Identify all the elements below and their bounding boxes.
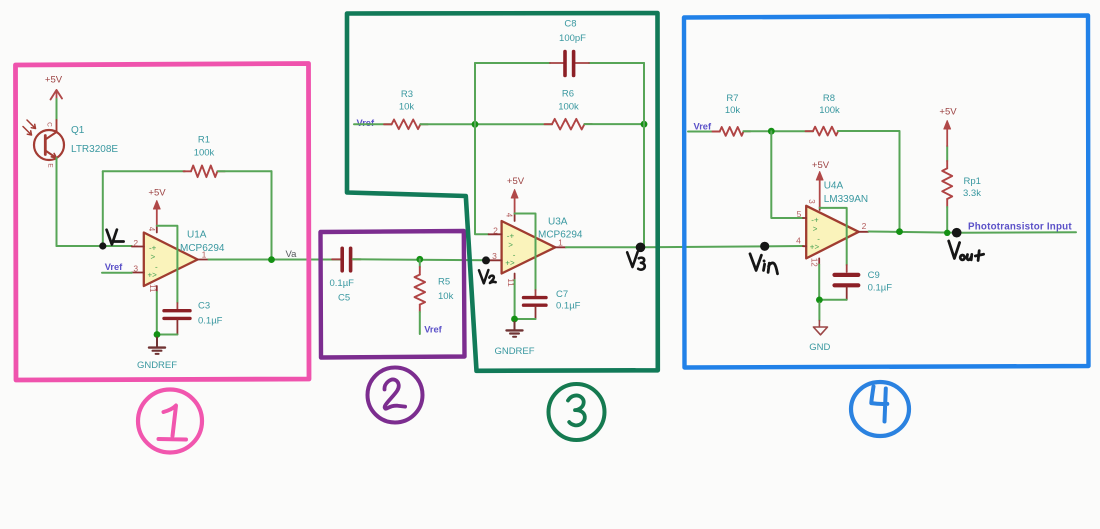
wire U4A output row xyxy=(869,232,1076,233)
svg-text:Vref: Vref xyxy=(105,262,123,272)
label Phototransistor Input xyxy=(968,222,1072,233)
capacitor C3 0.1uF xyxy=(164,301,223,335)
wire Q1 emitter down xyxy=(56,158,58,246)
svg-text:U1A: U1A xyxy=(187,230,207,241)
svg-text:2: 2 xyxy=(133,238,138,248)
node V2 dot xyxy=(482,256,490,264)
resistor R8 100k xyxy=(806,93,846,136)
svg-text:100k: 100k xyxy=(558,102,579,113)
resistor R1 100k xyxy=(184,135,226,178)
box 4 outline (blue) xyxy=(684,16,1089,368)
svg-text:Vref: Vref xyxy=(357,118,375,128)
wire U1A output row xyxy=(209,259,341,261)
svg-text:Vref: Vref xyxy=(694,122,712,132)
svg-text:10k: 10k xyxy=(438,291,454,302)
svg-text:Va: Va xyxy=(286,249,298,260)
wire C8 branch left vertical xyxy=(475,63,489,234)
svg-text:Phototransistor Input: Phototransistor Input xyxy=(968,222,1072,233)
svg-text:R6: R6 xyxy=(562,89,574,100)
phototransistor Q1 LTR3208E xyxy=(23,120,118,168)
resistor R7 10k xyxy=(713,93,751,136)
ground GNDREF (U3A) xyxy=(494,322,534,357)
capacitor C8 100pF xyxy=(550,19,589,76)
junction R7-R8 node xyxy=(768,128,775,135)
svg-text:Rp1: Rp1 xyxy=(964,176,981,187)
svg-text:C7: C7 xyxy=(556,289,568,300)
wire feedback top right xyxy=(218,170,272,172)
svg-text:0.1µF: 0.1µF xyxy=(198,316,223,327)
svg-text:MCP6294: MCP6294 xyxy=(180,243,225,254)
svg-text:4: 4 xyxy=(505,213,514,218)
svg-text:0.1µF: 0.1µF xyxy=(868,282,893,293)
svg-text:C9: C9 xyxy=(868,270,880,281)
wire right branch down to V3 row xyxy=(643,63,645,247)
wire U4A bypass tee xyxy=(820,208,847,265)
node Vout dot xyxy=(952,228,962,238)
svg-text:2: 2 xyxy=(493,226,498,236)
svg-text:3.3k: 3.3k xyxy=(963,188,981,199)
svg-text:0.1µF: 0.1µF xyxy=(330,278,355,289)
resistor R5 10k xyxy=(415,259,454,334)
svg-text:3: 3 xyxy=(492,251,497,261)
node V3 handwritten label xyxy=(627,252,645,270)
junction node Va xyxy=(268,256,275,263)
svg-text:GNDREF: GNDREF xyxy=(494,346,534,357)
wire R6 right xyxy=(585,123,645,125)
junction right C8 branch xyxy=(641,121,648,128)
ground GNDREF (U1A) xyxy=(137,338,177,372)
svg-text:-+: -+ xyxy=(507,231,515,240)
ground GND (U4A) xyxy=(809,303,830,354)
power +5V (U4A) xyxy=(812,160,830,207)
svg-text:Vref: Vref xyxy=(424,325,442,335)
node Vout handwritten label xyxy=(949,241,984,261)
circled number 2 xyxy=(368,368,423,423)
svg-text:LM339AN: LM339AN xyxy=(824,194,868,205)
capacitor C5 0.1uF xyxy=(330,248,362,303)
svg-text:5: 5 xyxy=(797,209,802,219)
op-amp U1A MCP6294 xyxy=(132,226,225,293)
svg-text:3: 3 xyxy=(133,264,138,274)
junction left C8 branch xyxy=(472,121,479,128)
svg-text:0.1µF: 0.1µF xyxy=(556,301,581,312)
svg-text:R1: R1 xyxy=(198,135,210,146)
resistor R6 100k xyxy=(545,89,593,130)
svg-text:+5V: +5V xyxy=(45,75,63,86)
node V2 handwritten label xyxy=(479,270,496,283)
capacitor C9 0.1uF xyxy=(835,270,893,300)
power +5V (U1A) xyxy=(148,188,166,226)
svg-text:+>: +> xyxy=(148,271,158,280)
box 1 outline (pink) xyxy=(16,64,310,381)
svg-text:100k: 100k xyxy=(194,148,215,159)
svg-text:R8: R8 xyxy=(823,93,835,104)
wire C8 row xyxy=(475,62,644,64)
svg-text:12: 12 xyxy=(809,258,818,267)
junction ground node U3A xyxy=(511,316,518,323)
wire U3A pin11 to ground junction xyxy=(515,280,536,319)
node Vin dot xyxy=(760,242,769,251)
wire feedback top left xyxy=(103,170,185,172)
label Vref (R7 left) xyxy=(688,122,720,132)
circled number 1 xyxy=(138,390,202,453)
wire Q1 collector to +5V xyxy=(56,99,58,120)
wire R8 to feedback vertical xyxy=(838,131,900,231)
svg-text:10k: 10k xyxy=(725,105,741,116)
label Vref (R5 bottom) xyxy=(424,325,442,335)
svg-text:U3A: U3A xyxy=(548,217,568,228)
svg-text:>: > xyxy=(508,240,513,249)
svg-text:>: > xyxy=(813,224,818,233)
svg-text:10k: 10k xyxy=(399,102,415,113)
junction Rp1 output node xyxy=(944,230,950,236)
svg-text:GND: GND xyxy=(809,342,830,353)
svg-text:2: 2 xyxy=(862,221,867,231)
svg-text:R5: R5 xyxy=(438,277,450,288)
circled number 3 xyxy=(549,384,605,440)
label Vref (U1A pin3) xyxy=(102,262,132,273)
svg-text:Q1: Q1 xyxy=(71,125,85,136)
junction R5 top xyxy=(416,256,423,263)
svg-text:C: C xyxy=(46,122,53,127)
svg-text:-+: -+ xyxy=(149,244,157,253)
node V3 dot xyxy=(636,243,646,253)
junction ground node U4A xyxy=(816,297,823,304)
svg-text:>: > xyxy=(151,253,156,262)
svg-text:LTR3208E: LTR3208E xyxy=(71,144,118,155)
wire U3A bypass tee xyxy=(515,214,536,291)
junction ground node U1A xyxy=(154,331,161,338)
svg-text:C5: C5 xyxy=(338,293,350,304)
op-amp U3A MCP6294 xyxy=(489,213,583,287)
svg-text:100pF: 100pF xyxy=(559,33,586,44)
svg-text:+>: +> xyxy=(505,258,515,267)
wire emitter row to U1A pin 2 xyxy=(57,245,132,247)
wire C5 to U3A pin3 xyxy=(353,259,489,260)
svg-text:R3: R3 xyxy=(401,89,413,100)
wire R7 to R8 xyxy=(744,130,814,132)
svg-text:-+: -+ xyxy=(811,215,819,224)
node V- dot xyxy=(99,242,106,249)
svg-text:100k: 100k xyxy=(819,105,840,116)
svg-text:+5V: +5V xyxy=(148,188,166,199)
svg-text:C3: C3 xyxy=(198,301,210,312)
svg-text:C8: C8 xyxy=(564,19,576,30)
capacitor C7 0.1uF xyxy=(524,289,581,319)
resistor R3 10k xyxy=(384,89,428,129)
svg-text:U4A: U4A xyxy=(824,181,844,192)
wire pin5 branch xyxy=(771,131,803,218)
box 3 outline (green) xyxy=(347,13,658,371)
svg-text:+5V: +5V xyxy=(939,107,957,118)
schematic layer placeholder xyxy=(23,19,1076,372)
wire U1A bypass tee xyxy=(157,226,178,303)
wire feedback right vertical xyxy=(271,171,273,259)
wire U4A pin12 to ground junction xyxy=(819,265,847,300)
power +5V (Q1 collector supply) xyxy=(45,75,63,100)
power +5V (Rp1) xyxy=(939,107,957,147)
junction feedback node xyxy=(896,228,903,235)
box 2 outline (purple) xyxy=(321,231,465,358)
wire U1A pin11 to ground junction xyxy=(157,292,178,335)
label Vref (R3 left) xyxy=(354,118,392,128)
wire feedback left vertical xyxy=(102,171,104,246)
svg-text:MCP6294: MCP6294 xyxy=(538,230,583,241)
svg-text:R7: R7 xyxy=(726,93,738,104)
resistor Rp1 3.3k pull-up xyxy=(942,146,981,233)
svg-text:+5V: +5V xyxy=(507,176,525,187)
svg-text:GNDREF: GNDREF xyxy=(137,360,177,371)
node Vin handwritten label xyxy=(750,254,777,274)
circled number 4 xyxy=(851,382,909,436)
svg-text:11: 11 xyxy=(148,284,157,293)
svg-text:+>: +> xyxy=(810,242,820,251)
wire R3 to R6 xyxy=(420,123,552,125)
power +5V (U3A) xyxy=(507,176,525,214)
svg-text:E: E xyxy=(47,163,54,168)
svg-text:+5V: +5V xyxy=(812,160,830,171)
svg-text:4: 4 xyxy=(796,236,801,246)
wire U3A output to section4 xyxy=(566,246,803,247)
op-amp U4A LM339AN xyxy=(796,181,868,268)
svg-text:3: 3 xyxy=(807,199,816,204)
svg-text:4: 4 xyxy=(147,227,156,232)
node V- handwritten label xyxy=(107,230,124,245)
